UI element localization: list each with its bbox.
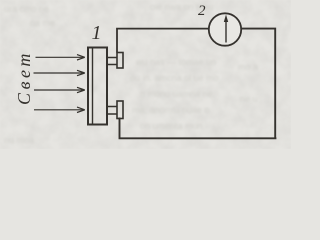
terminal bottom : neck <box>107 107 117 115</box>
svg-text:2: 2 <box>198 3 206 19</box>
svg-text:mo a: mo a <box>238 62 258 72</box>
svg-text:1: 1 <box>92 22 102 44</box>
light arrow 4 <box>34 107 85 112</box>
ink <box>34 13 277 138</box>
svg-text:Свет: Свет <box>14 50 34 105</box>
svg-text:ura cmo ne: ura cmo ne <box>4 4 49 14</box>
photocell 1 : inner plate line <box>92 48 94 125</box>
terminal bottom : cap <box>117 101 123 119</box>
wire: top terminal up and right to meter <box>117 29 209 53</box>
paper background <box>0 0 291 149</box>
wire: bottom run <box>120 118 277 139</box>
terminal top : neck <box>107 58 117 65</box>
svg-text:oa me: oa me <box>30 18 55 28</box>
svg-text:ou in. amcna ol ue mo: ou in. amcna ol ue mo <box>130 73 219 83</box>
photocell 1 : outer body <box>88 48 107 125</box>
svg-text:ne u: ne u <box>240 94 258 104</box>
svg-text:wu nas — tomae un: wu nas — tomae un <box>135 57 216 67</box>
wire: meter right to corner, down right side <box>241 29 275 139</box>
svg-text:ma. anomtu nuae o: ma. anomtu nuae o <box>132 105 210 115</box>
terminal top : cap <box>117 53 123 69</box>
galvanometer 2 : needle head <box>224 15 228 23</box>
svg-text:nu moa: nu moa <box>4 135 34 145</box>
svg-text:on umenta mun: on umenta mun <box>140 121 203 131</box>
galvanometer 2 : circle <box>209 13 241 45</box>
svg-text:n monu uamna ne: n monu uamna ne <box>140 89 213 99</box>
light arrow 2 <box>34 70 85 75</box>
light arrow 1 <box>36 55 85 60</box>
faint bleed-through text <box>4 2 258 145</box>
light arrow 3 <box>34 87 85 92</box>
galvanometer 2 : needle <box>225 18 227 43</box>
